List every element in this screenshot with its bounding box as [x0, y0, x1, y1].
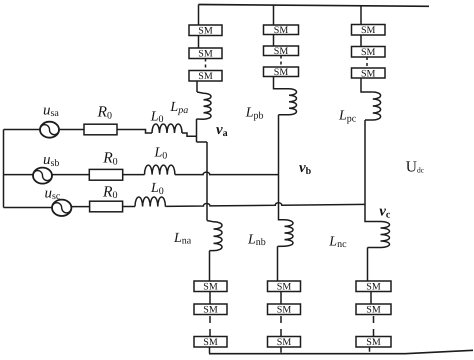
dashed wire: SM2-SM3 (phase c upper)	[366, 57, 368, 68]
svg-text:SM: SM	[366, 305, 381, 316]
wire: SM1-SM2 connector (phase a upper)	[198, 36, 200, 49]
wire: source a to R0	[59, 129, 84, 131]
SM text labels	[198, 25, 381, 348]
svg-text:SM: SM	[198, 49, 213, 60]
wire: L0 to node c with crossover hops at phase-a and phase-b arms	[165, 203, 365, 207]
submodule SM (phase a lower, 1)	[194, 281, 227, 292]
inductor Lpb (phase b upper arm)	[279, 89, 297, 115]
wire: L0 to node b with crossover hop at phase-a arm	[175, 172, 279, 175]
submodule SM (phase b lower, 2)	[268, 304, 301, 315]
inductor Lnb (phase b lower arm)	[278, 218, 294, 247]
dashed wire: SM2-SM3 (phase b upper)	[280, 56, 282, 68]
submodule SM (phase a lower, 3)	[194, 337, 227, 348]
inductor Lpa (phase a upper arm)	[197, 92, 212, 119]
svg-text:SM: SM	[277, 337, 292, 348]
submodule SM (phase a lower, 2)	[194, 304, 227, 315]
svg-text:SM: SM	[203, 282, 218, 293]
inductor L0 (phase b)	[145, 165, 175, 175]
resistor R0 (phase a)	[84, 124, 117, 135]
wire: phase c lower stack to bottom bus	[369, 347, 371, 352]
svg-text:SM: SM	[274, 67, 289, 78]
svg-text:SM: SM	[203, 337, 218, 348]
wire: Lpa to node a	[196, 119, 198, 142]
AC source u_sc	[52, 200, 71, 216]
svg-text:SM: SM	[366, 337, 381, 348]
wire: source b to R0	[52, 174, 89, 176]
wire: SM1-SM2 connector (phase c upper)	[360, 35, 362, 47]
wire: Lnb to lower SM stack (phase b)	[277, 246, 279, 281]
resistor R0 (phase c)	[90, 201, 123, 212]
wire: SM3 to arm inductor (phase b upper)	[274, 77, 290, 89]
wire: Lpc to node c and lower arm vertical	[364, 120, 366, 221]
wire: neutral to source b	[4, 174, 34, 176]
svg-text:SM: SM	[198, 26, 213, 37]
svg-text:SM: SM	[198, 71, 213, 82]
inductor Lpc (phase c upper arm)	[365, 92, 381, 120]
submodule SM (phase b upper, 2)	[264, 46, 299, 56]
wire: neutral to source a	[4, 129, 41, 131]
svg-text:SM: SM	[203, 305, 218, 316]
svg-text:SM: SM	[274, 46, 289, 57]
wire: SM1-SM2 connector (phase b upper)	[273, 35, 275, 47]
submodule SM (phase a upper, 3)	[189, 71, 222, 82]
wire: R0 to L0 (phase c)	[123, 206, 135, 208]
svg-text:SM: SM	[361, 25, 376, 36]
inductor L0 (phase c)	[135, 197, 165, 207]
wire: phase b lower stack to bottom bus	[280, 347, 282, 353]
wire: R0 to L0 (phase b)	[123, 174, 145, 176]
svg-text:SM: SM	[361, 69, 376, 80]
svg-text:SM: SM	[366, 282, 381, 293]
submodule SM (phase b upper, 3)	[264, 67, 299, 77]
inductor Lna (phase a lower arm)	[207, 221, 222, 251]
wire: top bus to phase-a upper SM stack	[198, 5, 200, 26]
top DC bus (positive rail)	[199, 5, 430, 7]
submodule SM (phase c upper, 1)	[352, 25, 386, 36]
submodule SM (phase b upper, 1)	[264, 25, 299, 35]
inductor Lnc (phase c lower arm)	[365, 221, 390, 248]
svg-text:SM: SM	[277, 282, 292, 293]
resistor R0 (phase b)	[89, 169, 122, 180]
dashed wire: SM2-SM3 (phase a upper)	[205, 59, 207, 71]
wire: R0 to L0 (phase a) with jog	[117, 130, 152, 134]
wire: top bus to phase-b upper SM stack	[273, 5, 275, 25]
wire: phase a lower stack to bottom bus	[209, 347, 211, 354]
submodule SM (phase b lower, 1)	[268, 281, 301, 292]
wire: SM1-SM2 connector (phase c lower)	[370, 292, 372, 305]
submodule SM (phase c lower, 1)	[356, 281, 391, 292]
bottom DC bus (negative rail)	[209, 350, 473, 353]
svg-text:SM: SM	[274, 25, 289, 36]
wire: source c to R0	[71, 206, 89, 208]
svg-text:SM: SM	[277, 305, 292, 316]
wire: top bus to phase-c upper SM stack	[360, 6, 362, 25]
inductor L0 (phase a)	[152, 124, 182, 133]
dashed wire: SM2-SM3 (phase c lower)	[373, 316, 375, 337]
AC source u_sb	[33, 168, 52, 184]
wire: neutral to source c	[4, 207, 53, 209]
wire: phase a lower arm vertical	[206, 142, 208, 221]
wire: Lpb to node b and lower arm vertical	[278, 115, 280, 218]
wire: SM1-SM2 connector (phase b lower)	[280, 292, 282, 305]
submodule SM (phase c lower, 2)	[356, 304, 391, 315]
dashed wire: SM2-SM3 (phase a lower)	[209, 316, 211, 337]
dashed wire: SM2-SM3 (phase b lower)	[280, 316, 282, 337]
wire: SM1-SM2 connector (phase a lower)	[209, 292, 211, 305]
AC source u_sa	[40, 122, 59, 138]
wire: Lna to lower SM stack (phase a)	[209, 251, 211, 281]
submodule SM (phase a upper, 1)	[189, 25, 222, 36]
submodule SM (phase c upper, 3)	[352, 68, 386, 78]
wire: SM3 to arm inductor (phase a upper)	[196, 81, 198, 92]
submodule SM (phase a upper, 2)	[189, 48, 222, 59]
wire: SM3 to arm inductor (phase c upper)	[361, 78, 373, 92]
wire: L0 to node a (phase a) with jog	[182, 133, 197, 136]
svg-text:SM: SM	[361, 47, 376, 58]
submodule SM (phase b lower, 3)	[268, 337, 301, 348]
submodule SM (phase c upper, 2)	[352, 47, 386, 58]
wire: Lnc to lower SM stack (phase c)	[367, 248, 369, 282]
node A jog wire	[197, 141, 208, 143]
submodule SM (phase c lower, 3)	[356, 337, 391, 348]
left AC neutral bus	[3, 130, 5, 208]
